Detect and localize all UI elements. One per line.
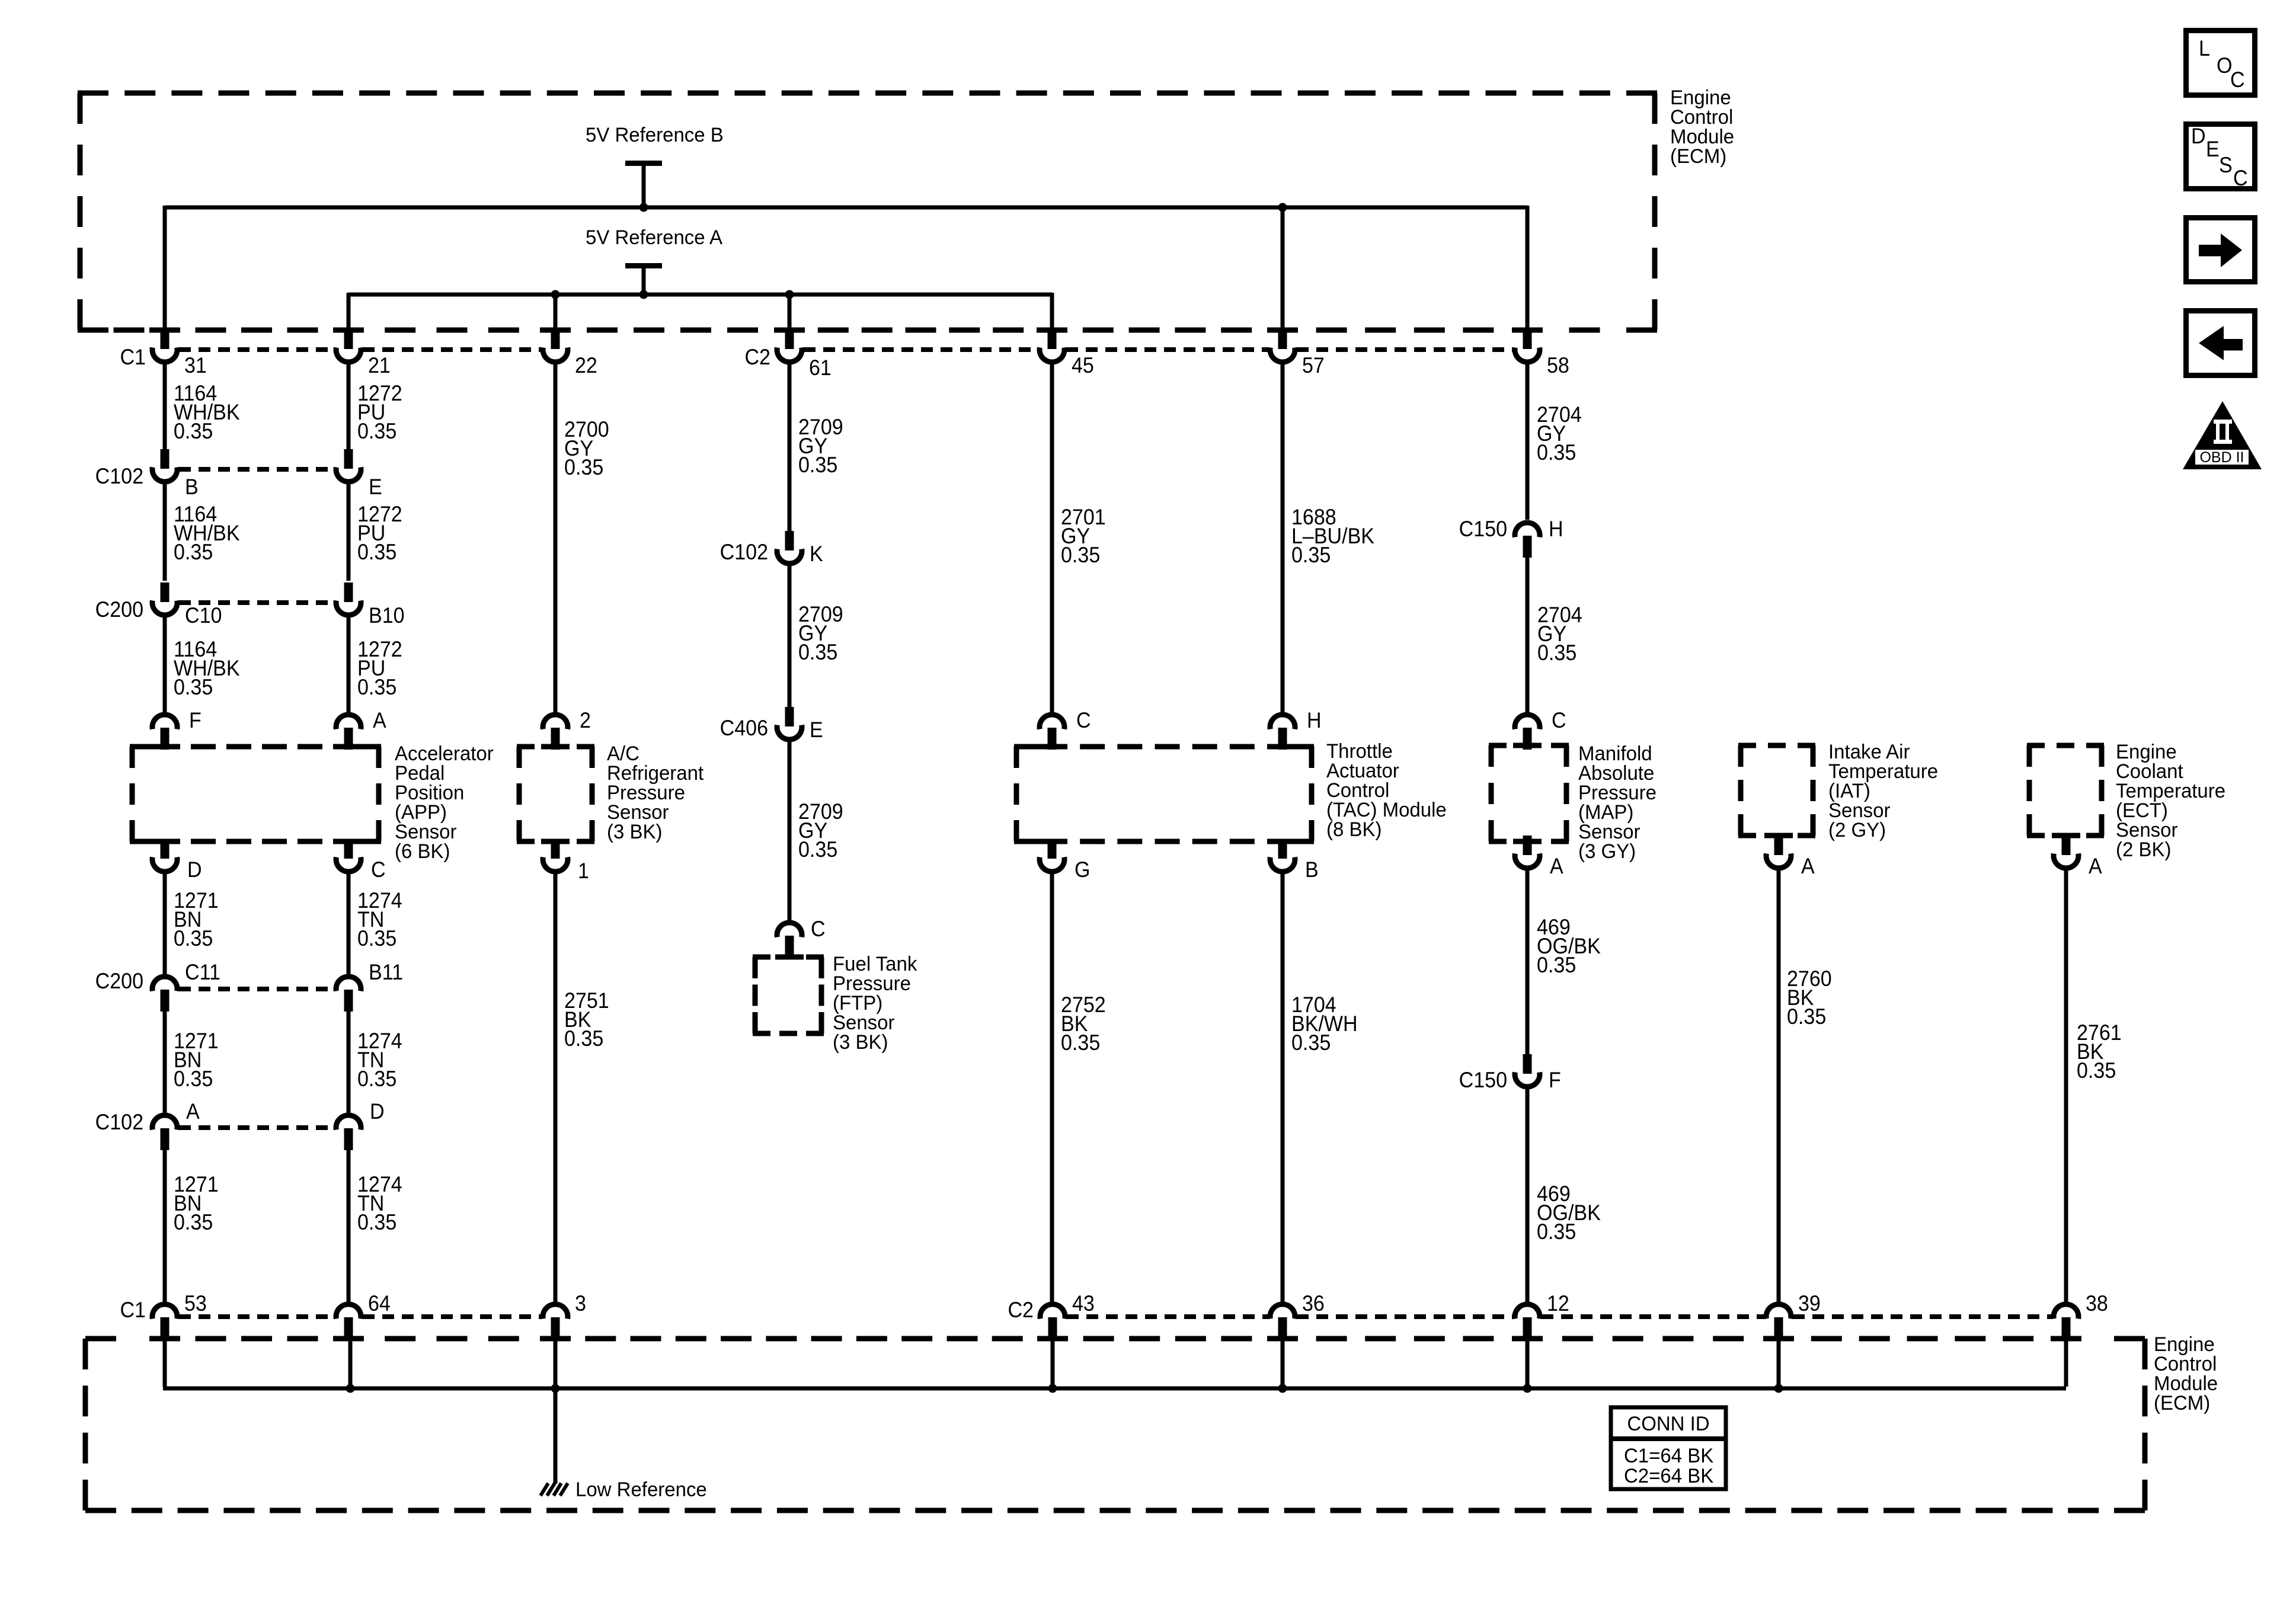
svg-text:39: 39 bbox=[1798, 1291, 1821, 1316]
wire 1271 BN segment 1 bbox=[163, 872, 167, 977]
svg-text:(ECM): (ECM) bbox=[1670, 146, 1726, 168]
svg-text:C1: C1 bbox=[120, 1298, 146, 1323]
svg-text:21: 21 bbox=[368, 353, 391, 378]
svg-text:A/C: A/C bbox=[607, 743, 639, 766]
sensor pin G (TAC) bbox=[1048, 839, 1057, 859]
wire 2701 GY bbox=[1050, 362, 1054, 712]
svg-text:(2 BK): (2 BK) bbox=[2116, 839, 2171, 862]
wire pin 43 to low ref bus bbox=[1051, 1337, 1055, 1388]
svg-text:Sensor: Sensor bbox=[1578, 821, 1640, 844]
svg-text:58: 58 bbox=[1547, 353, 1569, 378]
connector dotted line C200 bbox=[179, 600, 334, 605]
sensor pin C (FTP) bbox=[777, 923, 802, 937]
svg-text:Module: Module bbox=[1670, 126, 1734, 149]
svg-text:C10: C10 bbox=[185, 603, 222, 628]
svg-text:0.35: 0.35 bbox=[174, 540, 213, 565]
svg-text:(3 BK): (3 BK) bbox=[833, 1032, 888, 1054]
svg-text:(3 GY): (3 GY) bbox=[1578, 841, 1636, 863]
svg-text:C150: C150 bbox=[1459, 517, 1507, 542]
svg-text:0.35: 0.35 bbox=[1291, 543, 1331, 568]
wire pin 64 to low ref bus bbox=[348, 1337, 353, 1388]
svg-text:5V Reference B: 5V Reference B bbox=[586, 124, 724, 147]
svg-text:F: F bbox=[1549, 1068, 1561, 1093]
svg-text:0.35: 0.35 bbox=[174, 675, 213, 700]
svg-text:C2=64 BK: C2=64 BK bbox=[1624, 1465, 1713, 1488]
svg-text:2: 2 bbox=[580, 708, 591, 733]
wire 1164 WH/BK segment 1 bbox=[163, 362, 167, 449]
svg-text:0.35: 0.35 bbox=[564, 1026, 603, 1051]
connector dotted line C2 bottom bbox=[1067, 1314, 1268, 1319]
ECM pin 3 bottom bbox=[543, 1304, 568, 1319]
svg-text:0.35: 0.35 bbox=[174, 419, 213, 444]
svg-text:61: 61 bbox=[809, 356, 832, 380]
svg-text:(3 BK): (3 BK) bbox=[607, 821, 662, 844]
ECM pin 21 bbox=[344, 329, 353, 349]
sensor pin C (TAC) bbox=[1040, 715, 1064, 729]
svg-text:53: 53 bbox=[184, 1291, 207, 1316]
svg-text:Engine: Engine bbox=[2154, 1334, 2215, 1356]
wire 469 OG/BK segment 1 bbox=[1526, 868, 1530, 1054]
icon LOC button bbox=[2186, 31, 2255, 95]
connector dotted line C1 bottom bbox=[179, 1314, 334, 1319]
connector C102 pin D bbox=[336, 1115, 361, 1130]
ground Low Reference bbox=[541, 1483, 548, 1496]
svg-text:A: A bbox=[2089, 854, 2102, 879]
svg-text:0.35: 0.35 bbox=[357, 1210, 396, 1235]
connector C200 pin C11 bbox=[152, 977, 177, 991]
sensor pin C (MAP) bbox=[1515, 715, 1540, 729]
svg-text:0.35: 0.35 bbox=[357, 540, 396, 565]
connector dotted line C102 bbox=[179, 467, 334, 472]
svg-text:E: E bbox=[810, 718, 823, 742]
svg-text:C102: C102 bbox=[95, 464, 143, 489]
svg-text:12: 12 bbox=[1547, 1291, 1569, 1316]
svg-text:H: H bbox=[1307, 708, 1322, 733]
svg-text:A: A bbox=[373, 708, 386, 733]
ECM pin 61 bbox=[785, 329, 794, 349]
icon back arrow button bbox=[2186, 311, 2255, 376]
wire 1688 L-BU/BK bbox=[1281, 362, 1285, 712]
connector dotted line C200 lower bbox=[179, 987, 334, 991]
icon OBD II triangle bbox=[2183, 401, 2262, 469]
ECM pin 39 bottom bbox=[1766, 1304, 1791, 1319]
connector C102 pin B bbox=[161, 449, 170, 469]
svg-text:C: C bbox=[2233, 166, 2248, 191]
svg-text:C2: C2 bbox=[1008, 1298, 1034, 1323]
IAT sensor box bbox=[1738, 743, 1756, 748]
svg-text:G: G bbox=[1075, 857, 1090, 882]
wire bus A to pin 45 bbox=[1050, 293, 1054, 332]
svg-text:Control: Control bbox=[2154, 1353, 2217, 1376]
sensor pin C (APP) bbox=[344, 839, 353, 859]
connector C102 pin A bbox=[152, 1115, 177, 1130]
svg-text:Intake Air: Intake Air bbox=[1828, 741, 1910, 764]
wire low ref bus main bbox=[350, 1387, 2066, 1391]
svg-text:D: D bbox=[187, 857, 202, 882]
sensor pin 2 (A/C sensor) bbox=[543, 715, 568, 729]
svg-text:L: L bbox=[2199, 36, 2210, 61]
ECM pin 58 bbox=[1523, 329, 1532, 349]
wire 2709 GY segment 3 bbox=[788, 740, 792, 920]
ECM pin 12 bottom bbox=[1515, 1304, 1540, 1319]
svg-text:Position: Position bbox=[395, 782, 464, 805]
ECM pin 22 bbox=[551, 329, 560, 349]
MAP sensor box bbox=[1489, 743, 1507, 748]
svg-text:0.35: 0.35 bbox=[798, 837, 837, 862]
svg-text:31: 31 bbox=[184, 353, 207, 378]
wire 1274 TN segment 2 bbox=[347, 1009, 351, 1113]
sensor pin A (MAP) bbox=[1523, 836, 1532, 855]
svg-text:43: 43 bbox=[1072, 1291, 1095, 1316]
ECM pin 45 bbox=[1048, 329, 1057, 349]
svg-text:Engine: Engine bbox=[1670, 87, 1731, 110]
wire 2751 BK bbox=[554, 872, 558, 1303]
svg-text:CONN ID: CONN ID bbox=[1627, 1413, 1709, 1436]
wire 2709 GY segment 1 bbox=[788, 362, 792, 532]
wire bus B to pin 58 bbox=[1526, 206, 1530, 332]
ECM pin 57 bbox=[1278, 329, 1287, 349]
wire pin 38 to low ref bus bbox=[2064, 1337, 2068, 1387]
svg-text:C: C bbox=[1552, 708, 1566, 733]
svg-text:E: E bbox=[2206, 137, 2220, 162]
wire pin 3 to low ref bus and ground bbox=[554, 1337, 558, 1484]
svg-text:(2 GY): (2 GY) bbox=[1828, 820, 1886, 842]
connector C150 pin H bbox=[1515, 523, 1540, 537]
svg-text:(TAC) Module: (TAC) Module bbox=[1326, 799, 1447, 822]
CONN ID table bbox=[1611, 1407, 1726, 1489]
wire pin 39 to low ref bus bbox=[1777, 1337, 1781, 1388]
ECT sensor box bbox=[2027, 743, 2045, 748]
svg-text:22: 22 bbox=[575, 353, 597, 378]
sensor pin A (ECT) bbox=[2062, 836, 2071, 855]
svg-text:0.35: 0.35 bbox=[357, 926, 396, 951]
connector C200 pin B11 bbox=[336, 977, 361, 991]
svg-text:Sensor: Sensor bbox=[395, 821, 456, 844]
svg-text:H: H bbox=[1549, 517, 1563, 542]
wire 469 OG/BK segment 2 bbox=[1526, 1087, 1530, 1303]
svg-text:Pressure: Pressure bbox=[607, 782, 685, 805]
svg-text:36: 36 bbox=[1302, 1291, 1325, 1316]
FTP sensor box bbox=[753, 955, 770, 960]
svg-text:Absolute: Absolute bbox=[1578, 763, 1654, 785]
connector dotted line C2 top bbox=[804, 347, 1038, 352]
svg-text:E: E bbox=[369, 475, 382, 500]
svg-text:(ECT): (ECT) bbox=[2116, 800, 2168, 822]
ECM pin 43 bottom bbox=[1040, 1304, 1065, 1319]
svg-text:0.35: 0.35 bbox=[174, 926, 213, 951]
wire 2709 GY segment 2 bbox=[788, 564, 792, 708]
wire 2761 BK bbox=[2064, 868, 2068, 1303]
wire bus B to pin 57 bbox=[1278, 203, 1287, 212]
svg-text:C: C bbox=[1076, 708, 1091, 733]
connector C200 pin B10 bbox=[344, 582, 353, 602]
svg-text:C1: C1 bbox=[120, 345, 146, 370]
svg-text:D: D bbox=[370, 1099, 385, 1124]
svg-text:38: 38 bbox=[2086, 1291, 2108, 1316]
icon DESC button bbox=[2186, 124, 2255, 189]
ECM pin 53 bottom bbox=[152, 1304, 177, 1319]
sensor pin A (APP) bbox=[336, 715, 361, 729]
sensor pin A (IAT) bbox=[1774, 836, 1783, 855]
svg-text:0.35: 0.35 bbox=[174, 1210, 213, 1235]
connector C200 pin C10 bbox=[161, 582, 170, 602]
svg-text:A: A bbox=[1550, 854, 1563, 879]
svg-text:(8 BK): (8 BK) bbox=[1326, 819, 1382, 841]
svg-text:0.35: 0.35 bbox=[798, 640, 837, 665]
svg-text:Accelerator: Accelerator bbox=[395, 743, 494, 766]
sensor pin B (TAC) bbox=[1278, 839, 1287, 859]
svg-text:B10: B10 bbox=[369, 603, 405, 628]
connector C102 pin E bbox=[344, 449, 353, 469]
svg-text:0.35: 0.35 bbox=[1061, 1030, 1100, 1055]
wire 1274 TN segment 3 bbox=[347, 1148, 351, 1303]
wire 2700 GY bbox=[554, 362, 558, 712]
icon forward arrow button bbox=[2186, 218, 2255, 282]
sensor pin H (TAC) bbox=[1270, 715, 1295, 729]
svg-text:(MAP): (MAP) bbox=[1578, 802, 1633, 824]
svg-text:0.35: 0.35 bbox=[357, 1067, 396, 1092]
wire 1271 BN segment 3 bbox=[163, 1148, 167, 1303]
svg-text:C102: C102 bbox=[95, 1110, 143, 1135]
connector dotted line C1 top bbox=[179, 347, 334, 352]
connector C406 pin E bbox=[785, 707, 794, 726]
svg-text:0.35: 0.35 bbox=[1061, 543, 1100, 568]
sensor pin F (APP) bbox=[152, 715, 177, 729]
svg-text:B: B bbox=[1305, 857, 1319, 882]
wire 1274 TN segment 1 bbox=[347, 872, 351, 977]
wire bus A to pin 21 bbox=[347, 293, 351, 332]
wire 1164 WH/BK segment 3 bbox=[163, 615, 167, 712]
svg-text:Low Reference: Low Reference bbox=[575, 1479, 707, 1502]
svg-text:C: C bbox=[2230, 68, 2245, 92]
wire 2704 GY segment 1 bbox=[1526, 362, 1530, 520]
svg-text:64: 64 bbox=[368, 1291, 391, 1316]
svg-text:(FTP): (FTP) bbox=[833, 993, 882, 1015]
wire 1272 PU segment 1 bbox=[347, 362, 351, 449]
svg-text:Control: Control bbox=[1326, 780, 1389, 802]
svg-text:S: S bbox=[2219, 153, 2233, 178]
APP sensor box bbox=[130, 744, 155, 750]
A/C refrigerant pressure sensor box bbox=[517, 744, 535, 750]
svg-text:Module: Module bbox=[2154, 1373, 2218, 1395]
ECM pin 31 bbox=[161, 329, 170, 349]
wire 2760 BK bbox=[1777, 868, 1781, 1303]
svg-text:0.35: 0.35 bbox=[1537, 440, 1576, 465]
TAC module box bbox=[1014, 744, 1039, 750]
wire 5V Reference A bus bbox=[348, 293, 1052, 297]
svg-text:Manifold: Manifold bbox=[1578, 743, 1652, 766]
svg-text:0.35: 0.35 bbox=[174, 1067, 213, 1092]
svg-text:C102: C102 bbox=[720, 540, 768, 565]
sensor pin D (APP) bbox=[161, 839, 170, 859]
svg-text:C200: C200 bbox=[95, 969, 143, 994]
svg-text:0.35: 0.35 bbox=[1291, 1030, 1331, 1055]
svg-text:0.35: 0.35 bbox=[2077, 1058, 2116, 1083]
wire pin 36 to low ref bus bbox=[1281, 1337, 1285, 1388]
ECM pin 36 bottom bbox=[1270, 1304, 1295, 1319]
svg-text:F: F bbox=[189, 708, 202, 733]
svg-text:0.35: 0.35 bbox=[1787, 1004, 1826, 1029]
wire bus A to pin 61 bbox=[785, 290, 794, 299]
svg-text:C200: C200 bbox=[95, 597, 143, 622]
top ECM dashed box bbox=[78, 91, 108, 96]
svg-text:B11: B11 bbox=[369, 960, 403, 985]
svg-text:0.35: 0.35 bbox=[357, 419, 396, 444]
svg-text:C406: C406 bbox=[720, 716, 768, 741]
svg-text:Engine: Engine bbox=[2116, 741, 2177, 764]
svg-text:Sensor: Sensor bbox=[607, 802, 669, 824]
svg-text:C11: C11 bbox=[185, 960, 220, 985]
wire bus A to pin 22 bbox=[551, 290, 560, 299]
svg-text:0.35: 0.35 bbox=[357, 675, 396, 700]
svg-text:D: D bbox=[2191, 124, 2206, 149]
svg-text:3: 3 bbox=[575, 1291, 586, 1316]
svg-text:A: A bbox=[186, 1099, 200, 1124]
connector dotted line C102 lower bbox=[179, 1125, 334, 1130]
svg-text:(6 BK): (6 BK) bbox=[395, 841, 450, 863]
wire 2752 BK bbox=[1050, 872, 1054, 1303]
wire 1272 PU segment 2 bbox=[347, 482, 351, 581]
svg-text:57: 57 bbox=[1302, 353, 1325, 378]
svg-text:Sensor: Sensor bbox=[833, 1012, 894, 1035]
ECM pin 38 bottom bbox=[2054, 1304, 2078, 1319]
svg-text:0.35: 0.35 bbox=[1537, 1219, 1576, 1244]
svg-text:K: K bbox=[810, 542, 823, 566]
svg-text:C1=64 BK: C1=64 BK bbox=[1624, 1445, 1713, 1468]
svg-text:Sensor: Sensor bbox=[1828, 800, 1890, 822]
svg-text:A: A bbox=[1801, 854, 1815, 879]
svg-text:0.35: 0.35 bbox=[1537, 641, 1576, 665]
wire 1271 BN segment 2 bbox=[163, 1009, 167, 1113]
wire 1704 BK/WH bbox=[1281, 872, 1285, 1303]
svg-text:Coolant: Coolant bbox=[2116, 761, 2183, 783]
svg-text:B: B bbox=[185, 475, 199, 500]
wire 2704 GY segment 2 bbox=[1526, 555, 1530, 712]
svg-text:45: 45 bbox=[1072, 353, 1094, 378]
svg-text:(ECM): (ECM) bbox=[2154, 1393, 2210, 1415]
ECM pin 64 bottom bbox=[336, 1304, 361, 1319]
svg-text:(IAT): (IAT) bbox=[1828, 780, 1870, 803]
svg-text:Temperature: Temperature bbox=[1828, 761, 1938, 783]
svg-text:C2: C2 bbox=[744, 345, 770, 370]
svg-text:5V Reference A: 5V Reference A bbox=[586, 227, 723, 249]
svg-text:C: C bbox=[371, 857, 386, 882]
svg-text:Refrigerant: Refrigerant bbox=[607, 763, 704, 785]
svg-text:(APP): (APP) bbox=[395, 802, 447, 824]
svg-text:0.35: 0.35 bbox=[1537, 953, 1576, 978]
svg-text:Pressure: Pressure bbox=[833, 973, 911, 996]
sensor pin 1 (A/C sensor) bbox=[551, 839, 560, 859]
wire 1272 PU segment 3 bbox=[347, 615, 351, 712]
wire 1164 WH/BK segment 2 bbox=[163, 482, 167, 581]
wire pin 12 to low ref bus bbox=[1526, 1337, 1530, 1388]
svg-text:Actuator: Actuator bbox=[1326, 760, 1399, 783]
svg-text:0.35: 0.35 bbox=[564, 455, 603, 480]
bottom ECM dashed box bbox=[85, 1336, 116, 1342]
svg-text:Temperature: Temperature bbox=[2116, 780, 2225, 803]
svg-text:1: 1 bbox=[578, 859, 589, 884]
svg-text:0.35: 0.35 bbox=[798, 453, 837, 478]
wire 5V Reference B bus bbox=[165, 206, 1527, 210]
svg-text:Control: Control bbox=[1670, 107, 1733, 129]
svg-text:Throttle: Throttle bbox=[1326, 741, 1393, 763]
svg-text:OBD II: OBD II bbox=[2199, 449, 2244, 466]
svg-text:C: C bbox=[811, 917, 826, 942]
svg-text:Pressure: Pressure bbox=[1578, 782, 1657, 805]
wire pin 53 to low ref bus bbox=[163, 1337, 167, 1387]
wire bus B to pin 31 bbox=[163, 206, 167, 332]
svg-text:C150: C150 bbox=[1459, 1068, 1507, 1093]
connector C102 pin K bbox=[785, 531, 794, 550]
svg-text:Fuel Tank: Fuel Tank bbox=[833, 953, 917, 976]
svg-text:Pedal: Pedal bbox=[395, 763, 445, 785]
svg-text:Sensor: Sensor bbox=[2116, 820, 2177, 842]
connector C150 pin F bbox=[1523, 1054, 1532, 1074]
